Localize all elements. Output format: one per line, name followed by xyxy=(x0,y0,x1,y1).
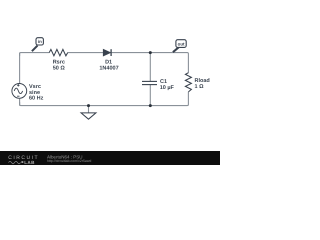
watermark logo squiggle xyxy=(9,161,21,163)
wire capacitor branch upper xyxy=(149,53,151,82)
wire source bottom to bottom rail xyxy=(19,99,21,106)
watermark logo LAB square xyxy=(21,161,23,163)
svg-text:10 µF: 10 µF xyxy=(160,85,175,91)
node flag out box xyxy=(176,40,186,48)
svg-text:50 Ω: 50 Ω xyxy=(53,65,66,71)
node flag in pointer xyxy=(32,46,38,52)
node flag out pointer xyxy=(173,47,179,52)
svg-text:1 Ω: 1 Ω xyxy=(195,84,205,90)
svg-text:out: out xyxy=(178,41,185,46)
node flag in box xyxy=(36,38,43,45)
resistor Rsrc xyxy=(49,49,67,55)
wire top middle (resistor to diode) xyxy=(68,52,104,54)
capacitor C1 xyxy=(142,81,157,84)
voltage source Vsrc xyxy=(12,84,27,99)
wire left vertical (corner to source) xyxy=(19,53,21,84)
wire top right (diode to corner) xyxy=(112,53,189,73)
svg-text:60 Hz: 60 Hz xyxy=(29,95,44,101)
svg-text:1N4007: 1N4007 xyxy=(99,65,118,71)
diode D1 xyxy=(103,49,111,56)
watermark bar xyxy=(0,151,220,165)
junction dot bottom (cap/bottom rail) xyxy=(149,104,152,107)
svg-text:in: in xyxy=(38,39,42,44)
wire top-left horizontal xyxy=(20,53,50,56)
ground xyxy=(81,113,96,119)
svg-text:http://circuitlab.com/c2r5awd: http://circuitlab.com/c2r5awd xyxy=(47,159,91,163)
svg-text:LAB: LAB xyxy=(24,160,35,165)
wire bottom rail xyxy=(20,92,189,106)
resistor Rload xyxy=(185,73,191,92)
wire capacitor branch lower xyxy=(149,85,151,106)
wire ground stub xyxy=(88,106,90,113)
junction dot ground xyxy=(87,104,90,107)
junction dot top (cap/top rail) xyxy=(149,51,152,54)
